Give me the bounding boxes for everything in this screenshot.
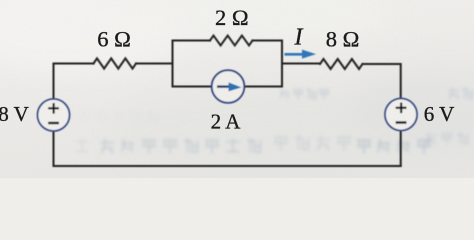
label 2 A (211, 110, 242, 134)
label 6 ohm (97, 27, 131, 52)
V1 minus sign (48, 122, 59, 124)
wire: 8-ohm resistor to top-right corner, down to 6V source (363, 64, 401, 98)
label 8 V (0, 102, 29, 126)
wire: bottom-left corner up to 8V source (53, 132, 55, 167)
label 8 ohm (326, 27, 360, 52)
circuit line art (38, 36, 418, 166)
wire: box bottom branch through current source (173, 86, 283, 88)
V2 plus sign (396, 103, 407, 114)
wire: below 6V source to bottom-right corner (400, 131, 402, 166)
V1 plus sign (48, 103, 59, 114)
voltage source V2 6V circle (385, 99, 417, 131)
label 2 ohm (215, 5, 249, 30)
wire: bottom return run (54, 165, 401, 167)
label 6 V (424, 102, 455, 126)
wire: parallel-box right vertical (281, 41, 283, 87)
wire: box top branch, right of 2-ohm resistor (253, 40, 283, 42)
wire: top-left corner (left vertical up + top run to 6-ohm resistor) (54, 64, 94, 100)
voltage source V1 8V circle (38, 99, 70, 131)
wire: 6-ohm resistor to parallel-box left side (136, 63, 173, 65)
wire: box right side to 8-ohm resistor (282, 63, 320, 65)
current arrow for label I (285, 50, 317, 59)
wire: box top branch, left of 2-ohm resistor (173, 40, 211, 42)
bleed-through text (page verso) (63, 88, 473, 153)
current source arrow (217, 82, 242, 91)
paper background (0, 0, 474, 180)
wire: parallel-box left vertical (172, 41, 174, 87)
resistor R2 2 ohm zigzag (210, 36, 253, 46)
scan grain overlay (0, 0, 474, 178)
label I (current) (294, 25, 304, 51)
current source I1 circle (212, 70, 245, 103)
resistor R1 6 ohm zigzag (94, 58, 137, 68)
V2 minus sign (396, 121, 407, 123)
resistor R3 8 ohm zigzag (320, 59, 363, 69)
